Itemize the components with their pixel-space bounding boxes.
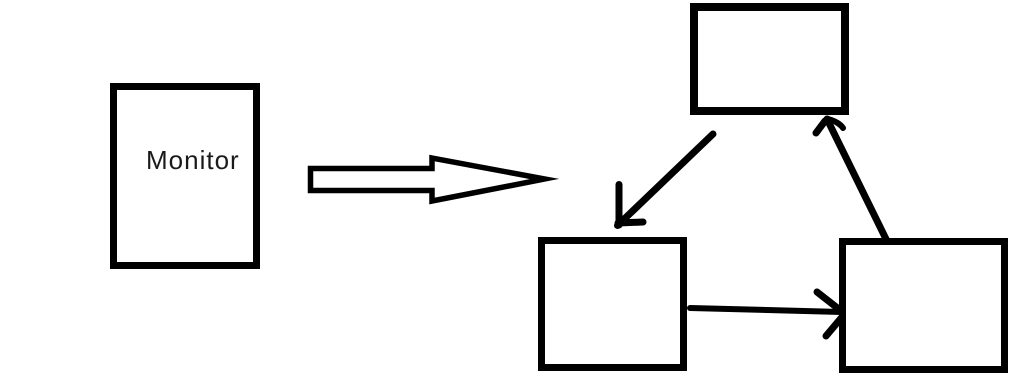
svg-text:Monitor: Monitor (146, 145, 240, 175)
